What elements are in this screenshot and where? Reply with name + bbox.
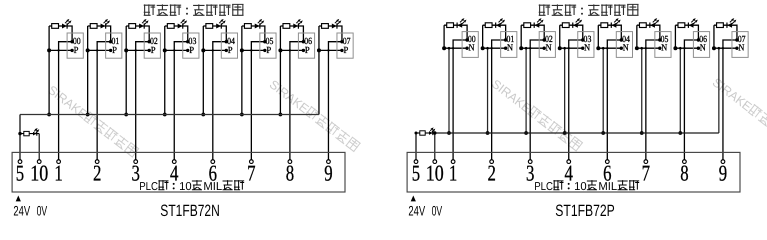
resistor R4A [167, 24, 174, 29]
junction: bus/rail ch 04B [596, 46, 600, 50]
resistor R2B [485, 23, 492, 28]
svg-text:9: 9 [324, 161, 332, 186]
wire: rail feed to terminal P [279, 49, 304, 51]
LED D3A [139, 19, 149, 29]
wire: rail feed to terminal N [558, 47, 583, 49]
terminal block CH05A [260, 33, 276, 58]
wire: rail feed to terminal P [317, 49, 342, 51]
pin 8 circle (B) [683, 160, 687, 164]
terminal dot P [340, 49, 343, 52]
resistor R9A (power) [24, 131, 29, 135]
resistor R5B [601, 23, 608, 28]
svg-text:N: N [661, 44, 667, 54]
wire: 24V riser pin 5 (A) [19, 115, 21, 160]
wire: N-rail drop ch 04B [602, 48, 604, 133]
terminal dot 00 [70, 40, 73, 43]
wire: channel 07A bus vertical [318, 26, 320, 115]
resistor R6B [639, 23, 646, 28]
LED D5A [216, 19, 226, 29]
pin 4 circle (B) [567, 160, 571, 164]
wire: signal from PLC pin 7 to terminal 05 (A) [251, 42, 265, 160]
terminal dot N [543, 47, 546, 50]
svg-text:10: 10 [179, 181, 192, 193]
terminal dot 05 [263, 40, 266, 43]
terminal block CH07B [732, 32, 748, 58]
svg-text:24V: 24V [13, 204, 30, 219]
junction: bus bottom ch 05A [240, 113, 244, 117]
svg-text:5: 5 [412, 161, 420, 186]
wire: channel 05B top LED feed [637, 25, 660, 40]
wire: pin10 riser (B) [434, 133, 436, 160]
junction: bus bottom ch 00A [47, 113, 51, 117]
pin 8 circle (A) [288, 160, 292, 164]
svg-text:P: P [74, 46, 79, 56]
wire: rail feed to terminal N [674, 47, 699, 49]
LED D1A [62, 19, 72, 29]
svg-text:P: P [151, 46, 156, 56]
LED D8B [727, 18, 736, 28]
wire: signal from PLC pin 4 to terminal 03 (A) [174, 42, 188, 160]
wire: N-rail drop ch 06B [679, 48, 681, 133]
svg-text:9: 9 [719, 161, 727, 186]
LED D6B [650, 18, 659, 28]
wire: signal from PLC pin 2 to terminal 01 (A) [97, 42, 111, 160]
wire: N-rail drop ch 07B [718, 48, 720, 133]
wire: channel 03B top LED feed [560, 25, 583, 40]
pin 2 circle (B) [490, 160, 494, 164]
resistor R9B (power) [420, 131, 425, 135]
LED D7B [688, 18, 697, 28]
resistor R1B [447, 23, 454, 28]
terminal dot P [263, 49, 266, 52]
LED D7A [293, 19, 303, 29]
terminal dot N [735, 47, 738, 50]
wire: signal from PLC pin 1 to terminal 00 (A) [59, 42, 73, 160]
terminal dot 01 [504, 38, 507, 41]
wire: channel 07A top LED feed [319, 26, 342, 42]
wire: signal from PLC pin 7 to terminal 05 (B) [646, 40, 660, 160]
svg-text:7: 7 [247, 161, 255, 186]
svg-text:10: 10 [426, 161, 444, 186]
junction: bus/rail ch 03A [163, 48, 167, 52]
terminal dot 05 [658, 38, 661, 41]
terminal block CH04B [616, 32, 632, 58]
pin 1 circle (B) [451, 160, 455, 164]
terminal block CH06A [298, 33, 314, 58]
wire: rail feed to terminal P [202, 49, 227, 51]
pin 10 circle (A) [37, 160, 41, 164]
pin 10 circle (B) [433, 160, 437, 164]
watermark 4 "SIRAKE 斯帕克电气" [710, 75, 767, 152]
wire: rail feed to terminal P [125, 49, 150, 51]
junction: bus/rail ch 00B [442, 46, 446, 50]
junction: bus/rail ch 07B [712, 46, 716, 50]
terminal dot P [225, 49, 228, 52]
wire: channel 02B top LED feed [521, 25, 544, 40]
wire: rail feed to terminal N [481, 47, 506, 49]
wire: N-rail drop ch 05B [641, 48, 643, 133]
terminal block CH00A [67, 33, 83, 58]
terminal block CH03B [578, 32, 594, 58]
svg-text:MIL: MIL [203, 181, 222, 193]
pin 2 circle (A) [95, 160, 99, 164]
terminal block CH01A [106, 33, 122, 58]
svg-text:24V: 24V [408, 204, 425, 219]
terminal dot P [70, 49, 73, 52]
wire: signal from PLC pin 6 to terminal 04 (B) [607, 40, 621, 160]
wire: channel 06B bus vertical [674, 25, 676, 48]
terminal dot 02 [543, 38, 546, 41]
svg-text:2: 2 [487, 161, 495, 186]
resistor R4B [562, 23, 569, 28]
wire: channel 00A bus vertical [48, 26, 50, 115]
wire: rail feed to terminal P [86, 49, 111, 51]
pin 4 circle (A) [172, 160, 176, 164]
junction: power LED tap (A) [18, 132, 21, 135]
PLC connector J1A (10-pin MIL socket) [12, 152, 345, 192]
terminal dot 06 [302, 40, 305, 43]
terminal block CH00B [462, 32, 478, 58]
svg-text:P: P [305, 46, 310, 56]
resistor R2A [90, 24, 97, 29]
svg-text:N: N [469, 44, 475, 54]
terminal dot P [186, 49, 189, 52]
terminal block CH01B [501, 32, 517, 58]
junction: bus/rail ch 06B [673, 46, 677, 50]
LED D4B [573, 18, 582, 28]
terminal dot N [581, 47, 584, 50]
wire: 24V bus (A) [20, 114, 319, 116]
wire: channel 01A bus vertical [87, 26, 89, 115]
wire: channel 00B bus vertical [443, 25, 445, 48]
svg-text:0V: 0V [432, 204, 443, 219]
wire: channel 07B bus vertical [713, 25, 715, 48]
terminal block CH05B [655, 32, 671, 58]
resistor R3A [129, 24, 136, 29]
svg-text:1: 1 [54, 161, 62, 186]
LED D9A (power) [33, 128, 39, 136]
svg-text:ST1FB72P: ST1FB72P [555, 202, 615, 220]
wire: channel 03A bus vertical [164, 26, 166, 115]
wire: channel 05A bus vertical [241, 26, 243, 115]
wire: N-rail drop ch 00B [448, 48, 450, 133]
wire: channel 07B top LED feed [714, 25, 737, 40]
terminal dot 03 [186, 40, 189, 43]
svg-text:P: P [228, 46, 233, 56]
svg-text:N: N [738, 44, 744, 54]
svg-text:ST1FB72N: ST1FB72N [160, 202, 220, 220]
svg-text:8: 8 [286, 161, 294, 186]
wire: rail feed to terminal N [443, 47, 468, 49]
svg-text:4: 4 [565, 161, 573, 186]
wire: N-rail drop ch 02B [525, 48, 527, 133]
wire: rail feed to terminal N [597, 47, 622, 49]
terminal dot 00 [465, 38, 468, 41]
pin 1 circle (A) [57, 160, 61, 164]
wire: channel 04B top LED feed [598, 25, 621, 40]
PLC connector J1B (10-pin MIL socket) [407, 152, 740, 192]
junction: bus bottom ch 02A [124, 113, 128, 117]
pin 7 circle (A) [250, 160, 254, 164]
wire: N-rail drop ch 01B [487, 48, 489, 133]
terminal dot 06 [697, 38, 700, 41]
junction: bus/rail ch 02A [124, 48, 128, 52]
junction: bus/rail ch 07A [317, 48, 321, 52]
svg-text:P: P [189, 46, 194, 56]
junction: bus/rail ch 03B [558, 46, 562, 50]
terminal dot P [302, 49, 305, 52]
pin 5 circle (B) [414, 160, 418, 164]
wire: channel 06A bus vertical [279, 26, 281, 115]
wire: channel 02A top LED feed [126, 26, 149, 42]
wire: channel 01B bus vertical [482, 25, 484, 48]
terminal block CH06B [693, 32, 709, 58]
wire: channel 06B top LED feed [675, 25, 698, 40]
wire: channel 01A top LED feed [88, 26, 111, 42]
junction: bus bottom ch 06A [279, 113, 283, 117]
pin 6 circle (A) [211, 160, 215, 164]
resistor R1A [52, 24, 59, 29]
pin 6 circle (B) [605, 160, 609, 164]
terminal dot 02 [148, 40, 151, 43]
wire: 0V riser pin 5 (B) [415, 133, 417, 160]
wire: channel 02A bus vertical [125, 26, 127, 115]
wire: signal from PLC pin 3 to terminal 02 (A) [136, 42, 150, 160]
terminal dot P [148, 49, 151, 52]
wire: channel 01B top LED feed [483, 25, 506, 40]
svg-text:PLC: PLC [139, 181, 158, 193]
svg-text:1: 1 [449, 161, 457, 186]
junction: bus/rail ch 05B [635, 46, 639, 50]
svg-text:10: 10 [574, 181, 587, 193]
wire: signal from PLC pin 9 to terminal 07 (A) [328, 42, 342, 160]
LED D6A [255, 19, 265, 29]
wire: signal from PLC pin 6 to terminal 04 (A) [213, 42, 227, 160]
junction: bus bottom ch 03A [163, 113, 167, 117]
wire: power LED branch (A) [20, 134, 39, 160]
wire: signal from PLC pin 8 to terminal 06 (A) [290, 42, 304, 160]
wire: 0V bus (B) [416, 132, 719, 134]
wire: rail feed to terminal N [712, 47, 737, 49]
svg-text:P: P [112, 46, 117, 56]
resistor R8B [717, 23, 724, 28]
LED D2B [496, 18, 505, 28]
LED D9B (power) [429, 127, 435, 135]
LED D1B [457, 18, 466, 28]
wire: rail feed to terminal P [48, 49, 73, 51]
wire: channel 03A top LED feed [165, 26, 188, 42]
svg-text:5: 5 [16, 161, 24, 186]
junction: bus/rail ch 01A [86, 48, 90, 52]
resistor R8A [322, 24, 329, 29]
watermark 3 "SIRAKE 斯帕克电气" [489, 77, 583, 154]
resistor R6A [244, 24, 251, 29]
terminal dot N [465, 47, 468, 50]
wire: channel 05B bus vertical [636, 25, 638, 48]
svg-text:N: N [700, 44, 706, 54]
wire: signal from PLC pin 9 to terminal 07 (B) [723, 40, 737, 160]
wire: signal from PLC pin 3 to terminal 02 (B) [530, 40, 544, 160]
wire: signal from PLC pin 2 to terminal 01 (B) [492, 40, 506, 160]
wire: signal from PLC pin 8 to terminal 06 (B) [684, 40, 698, 160]
wire: channel 02B bus vertical [520, 25, 522, 48]
watermark 2 "SIRAKE 斯帕克电气" [267, 77, 361, 154]
svg-text:MIL: MIL [598, 181, 617, 193]
junction: power LED tap (B) [415, 132, 418, 135]
resistor R7B [678, 23, 685, 28]
svg-text:8: 8 [680, 161, 688, 186]
pin 9 circle (B) [721, 160, 725, 164]
wire: channel 04A top LED feed [203, 26, 226, 42]
LED D4A [178, 19, 188, 29]
wire: signal from PLC pin 4 to terminal 03 (B) [569, 40, 583, 160]
terminal dot N [620, 47, 623, 50]
wire: signal from PLC pin 1 to terminal 00 (B) [453, 40, 467, 160]
terminal block CH04A [221, 33, 237, 58]
terminal block CH03A [183, 33, 199, 58]
terminal block CH07A [337, 33, 353, 58]
pin 3 circle (A) [134, 160, 138, 164]
terminal dot 04 [225, 40, 228, 43]
terminal dot P [109, 49, 112, 52]
svg-text:N: N [584, 44, 590, 54]
pin 5 circle (A) [18, 160, 22, 164]
resistor R3B [524, 23, 531, 28]
wire: channel 00B top LED feed [444, 25, 467, 40]
svg-text:0V: 0V [37, 204, 48, 219]
LED D2A [101, 19, 111, 29]
LED D3B [534, 18, 543, 28]
terminal dot 07 [735, 38, 738, 41]
junction: bus/rail ch 06A [278, 48, 282, 52]
svg-text:N: N [507, 44, 513, 54]
terminal dot 07 [340, 40, 343, 43]
wire: channel 04A bus vertical [202, 26, 204, 115]
terminal block CH02B [539, 32, 555, 58]
watermark 1 "SIRAKE 斯帕克电气" [45, 83, 139, 160]
LED D8A [332, 19, 342, 29]
svg-text:PLC: PLC [534, 181, 553, 193]
title text 负载侧：弹簧端子 (A) [144, 4, 155, 15]
terminal dot 01 [109, 40, 112, 43]
wire: channel 03B bus vertical [559, 25, 561, 48]
wire: channel 00A top LED feed [49, 26, 72, 42]
svg-text:7: 7 [642, 161, 650, 186]
svg-text:10: 10 [30, 161, 48, 186]
junction: bus bottom ch 04A [201, 113, 205, 117]
wire: channel 06A top LED feed [280, 26, 303, 42]
terminal dot N [504, 47, 507, 50]
wire: channel 05A top LED feed [242, 26, 265, 42]
wire: rail feed to terminal P [163, 49, 188, 51]
svg-text:2: 2 [93, 161, 101, 186]
junction: bus/rail ch 00A [47, 48, 51, 52]
terminal dot N [697, 47, 700, 50]
svg-text:P: P [266, 46, 271, 56]
junction: bus/rail ch 02B [519, 46, 523, 50]
24V polarity marker triangle (B) [411, 196, 416, 202]
pin 7 circle (B) [644, 160, 648, 164]
junction: bus bottom ch 01A [86, 113, 90, 117]
resistor R7A [283, 24, 290, 29]
svg-text:N: N [623, 44, 629, 54]
svg-text:4: 4 [170, 161, 178, 186]
terminal dot N [658, 47, 661, 50]
title text 负载侧：弹簧端子 (B) [539, 4, 550, 15]
24V polarity marker triangle (A) [16, 196, 21, 202]
wire: N-rail drop ch 03B [564, 48, 566, 133]
LED D5B [611, 18, 620, 28]
resistor R5A [206, 24, 213, 29]
terminal dot 04 [620, 38, 623, 41]
svg-text:N: N [546, 44, 552, 54]
wire: channel 04B bus vertical [597, 25, 599, 48]
wire: rail feed to terminal P [240, 49, 265, 51]
terminal dot 03 [581, 38, 584, 41]
svg-text:P: P [343, 46, 348, 56]
junction: bus/rail ch 01B [481, 46, 485, 50]
junction: bus/rail ch 05A [240, 48, 244, 52]
wire: rail feed to terminal N [635, 47, 660, 49]
pin 3 circle (B) [528, 160, 532, 164]
pin 9 circle (A) [327, 160, 331, 164]
svg-text:3: 3 [526, 161, 534, 186]
junction: bus/rail ch 04A [201, 48, 205, 52]
terminal block CH02A [144, 33, 160, 58]
wire: rail feed to terminal N [520, 47, 545, 49]
